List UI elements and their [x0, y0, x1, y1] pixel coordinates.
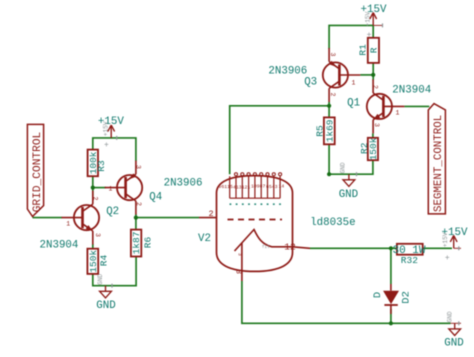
svg-text:V2: V2 — [198, 233, 211, 245]
svg-text:2: 2 — [372, 85, 379, 89]
svg-text:Q2: Q2 — [106, 206, 119, 218]
svg-text:413121: 413121 — [233, 185, 250, 191]
svg-text:GRID_CONTROL: GRID_CONTROL — [32, 131, 44, 212]
svg-text:R2: R2 — [359, 142, 370, 154]
svg-text:GND: GND — [96, 300, 115, 312]
svg-text:1: 1 — [396, 110, 400, 117]
svg-text:+15V: +15V — [364, 11, 371, 26]
svg-text:150k: 150k — [88, 250, 99, 273]
svg-text:+: + — [104, 141, 109, 150]
svg-text:12: 12 — [284, 241, 296, 252]
svg-text:Q4: Q4 — [149, 192, 162, 204]
svg-text:D: D — [372, 292, 384, 298]
svg-text:2: 2 — [135, 202, 142, 206]
svg-text:1k87: 1k87 — [131, 232, 142, 255]
svg-text:3: 3 — [373, 123, 380, 127]
svg-text:3: 3 — [329, 53, 336, 57]
svg-text:R4: R4 — [99, 255, 110, 267]
svg-text:GND: GND — [446, 311, 453, 322]
svg-text:+15V: +15V — [442, 232, 449, 247]
svg-text:R6: R6 — [143, 237, 154, 249]
svg-text:GND: GND — [97, 274, 104, 285]
svg-text:1: 1 — [66, 221, 70, 228]
svg-text:1: 1 — [109, 186, 113, 193]
svg-text:ld8035e: ld8035e — [310, 217, 355, 229]
svg-text:GND: GND — [444, 338, 463, 350]
svg-text:R1: R1 — [358, 44, 369, 56]
svg-text:fil: fil — [262, 245, 270, 250]
svg-text:3: 3 — [237, 253, 243, 256]
svg-text:R: R — [368, 47, 379, 53]
svg-text:2: 2 — [209, 209, 214, 219]
svg-text:SEGMENT_CONTROL: SEGMENT_CONTROL — [433, 115, 445, 212]
svg-text:R32: R32 — [401, 255, 418, 266]
svg-text:2: 2 — [329, 93, 336, 97]
svg-text:Q1: Q1 — [347, 97, 360, 109]
svg-text:14: 14 — [279, 184, 285, 190]
svg-text:v6115: v6115 — [219, 184, 234, 190]
svg-text:2: 2 — [92, 197, 99, 201]
svg-text:3: 3 — [135, 165, 142, 169]
svg-text:2N3904: 2N3904 — [392, 85, 431, 97]
svg-text:1: 1 — [352, 80, 356, 87]
svg-text:+15V: +15V — [102, 121, 109, 136]
svg-text:2N3906: 2N3906 — [268, 65, 307, 77]
svg-text:GND: GND — [340, 162, 347, 173]
svg-text:GND: GND — [339, 189, 358, 201]
svg-text:R3: R3 — [96, 160, 107, 172]
svg-text:+: + — [445, 254, 450, 263]
svg-text:2N3906: 2N3906 — [164, 178, 203, 190]
svg-text:2N3904: 2N3904 — [40, 239, 79, 251]
svg-text:3: 3 — [233, 269, 242, 274]
svg-text:6543: 6543 — [266, 184, 278, 190]
svg-text:3: 3 — [94, 233, 101, 237]
svg-text:D2: D2 — [400, 291, 412, 304]
svg-text:+: + — [367, 31, 372, 40]
svg-text:10987: 10987 — [251, 184, 266, 190]
svg-text:Q3: Q3 — [304, 77, 317, 89]
svg-text:1k69: 1k69 — [324, 119, 335, 142]
svg-text:R5: R5 — [314, 125, 325, 137]
